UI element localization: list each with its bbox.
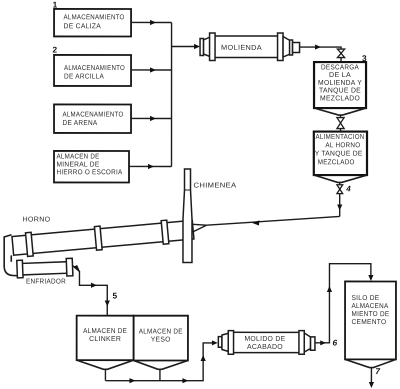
svg-text:ALMACEN DE: ALMACEN DE <box>139 328 183 335</box>
svg-text:7: 7 <box>375 366 380 376</box>
svg-text:MEZCLADO: MEZCLADO <box>318 159 355 166</box>
svg-text:SILO DE: SILO DE <box>351 295 379 302</box>
svg-text:3: 3 <box>362 53 367 63</box>
svg-text:HORNO: HORNO <box>22 216 50 223</box>
svg-text:ALMACENAMIENTO: ALMACENAMIENTO <box>63 111 124 118</box>
svg-text:CEMENTO: CEMENTO <box>351 319 386 326</box>
svg-text:4: 4 <box>345 184 351 193</box>
svg-text:CHIMENEA: CHIMENEA <box>194 182 237 189</box>
svg-text:HIERRO O ESCORIA: HIERRO O ESCORIA <box>57 169 123 176</box>
svg-text:ALMACENA: ALMACENA <box>351 303 388 310</box>
svg-text:MINERAL DE: MINERAL DE <box>57 161 100 168</box>
svg-text:AL HORNO: AL HORNO <box>325 142 360 149</box>
svg-text:MIENTO DE: MIENTO DE <box>351 311 389 318</box>
svg-text:1: 1 <box>53 0 58 9</box>
svg-text:DE CALIZA: DE CALIZA <box>64 23 102 30</box>
svg-text:DE ARENA: DE ARENA <box>63 120 98 127</box>
svg-text:ENFRIADOR: ENFRIADOR <box>26 278 66 285</box>
svg-text:ALMACENAMIENTO: ALMACENAMIENTO <box>64 14 125 21</box>
svg-text:Y TANQUE DE: Y TANQUE DE <box>315 151 363 158</box>
svg-text:DESCARGA: DESCARGA <box>321 64 359 71</box>
svg-text:ALMACEN DE: ALMACEN DE <box>57 153 100 160</box>
svg-text:CLINKER: CLINKER <box>89 336 121 343</box>
svg-text:6: 6 <box>332 338 337 348</box>
svg-text:ALMACENAMIENTO: ALMACENAMIENTO <box>64 65 125 72</box>
svg-text:TANQUE DE: TANQUE DE <box>319 88 361 95</box>
svg-text:ALIMENTACION: ALIMENTACION <box>316 134 365 141</box>
svg-text:ALMACEN DE: ALMACEN DE <box>83 328 127 335</box>
svg-text:DE ARCILLA: DE ARCILLA <box>64 73 104 80</box>
svg-text:MOLIENDA Y: MOLIENDA Y <box>318 80 362 87</box>
svg-text:MOLIDO DE: MOLIDO DE <box>244 336 285 343</box>
svg-text:ACABADO: ACABADO <box>247 344 283 351</box>
svg-text:DE LA: DE LA <box>329 72 351 79</box>
svg-text:MOLIENDA: MOLIENDA <box>221 45 262 52</box>
svg-text:5: 5 <box>112 290 117 300</box>
svg-text:MEZCLADO: MEZCLADO <box>320 95 360 102</box>
svg-text:YESO: YESO <box>151 336 171 343</box>
svg-text:2: 2 <box>53 44 58 54</box>
